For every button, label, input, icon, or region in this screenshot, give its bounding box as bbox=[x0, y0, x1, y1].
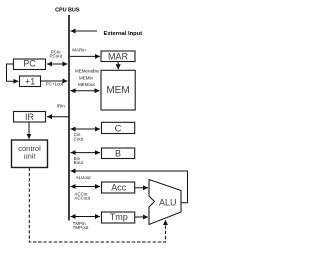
wire: control unit to ALU (dashed control path) bbox=[29, 168, 165, 242]
memory MEM bbox=[101, 70, 135, 110]
svg-text:MEMenable: MEMenable bbox=[75, 69, 100, 74]
wire: PC to bus (double arrow) bbox=[47, 63, 68, 65]
svg-text:MAR: MAR bbox=[108, 52, 129, 62]
svg-text:Cout: Cout bbox=[74, 136, 84, 141]
wire: ALU output feedback to bus (ALUout) bbox=[71, 171, 188, 203]
wire: B to bus (double arrow) bbox=[71, 152, 101, 154]
svg-text:unit: unit bbox=[23, 152, 36, 161]
svg-text:IRin: IRin bbox=[57, 104, 65, 109]
svg-text:PC+1out: PC+1out bbox=[46, 82, 64, 87]
wire: +1 to bus bbox=[41, 80, 68, 82]
svg-text:External Input: External Input bbox=[104, 31, 143, 37]
wire: External Input to bus bbox=[71, 30, 98, 32]
wire: Tmp to ALU bbox=[135, 216, 148, 218]
svg-text:PC: PC bbox=[23, 59, 36, 69]
svg-text:Acc: Acc bbox=[111, 183, 127, 193]
svg-text:MEMin: MEMin bbox=[79, 76, 93, 81]
wire: bus to IR bbox=[47, 116, 69, 118]
wire: MEM to bus (double arrow) bbox=[71, 90, 100, 92]
wire: IR to control unit bbox=[28, 122, 30, 139]
control unit bbox=[12, 140, 48, 168]
wire: C to bus (double arrow) bbox=[71, 128, 101, 130]
svg-text:+1: +1 bbox=[25, 77, 35, 87]
register IR bbox=[14, 112, 46, 123]
svg-text:MEM: MEM bbox=[106, 85, 129, 96]
svg-text:MEMout: MEMout bbox=[78, 82, 96, 87]
wire: Acc to bus (double arrow) bbox=[71, 186, 101, 188]
wire: Tmp to bus (double arrow) bbox=[71, 216, 101, 218]
svg-text:B: B bbox=[115, 149, 121, 159]
svg-text:Tmp: Tmp bbox=[110, 212, 128, 222]
svg-text:TMPout: TMPout bbox=[73, 225, 90, 230]
svg-text:C: C bbox=[115, 123, 122, 134]
register MAR bbox=[101, 51, 135, 62]
svg-text:IR: IR bbox=[25, 112, 35, 122]
svg-text:PCout: PCout bbox=[49, 54, 62, 59]
incrementer +1 bbox=[20, 76, 41, 87]
register C bbox=[102, 122, 135, 134]
register PC bbox=[14, 59, 46, 70]
svg-text:Bout: Bout bbox=[74, 160, 84, 165]
svg-text:MARin: MARin bbox=[72, 48, 86, 53]
wire: PC to +1 (elbow) bbox=[7, 64, 19, 81]
wire: bus to MAR bbox=[70, 55, 100, 57]
svg-text:ALUout: ALUout bbox=[76, 175, 92, 180]
wire: Acc to ALU bbox=[135, 187, 148, 189]
svg-text:ALU: ALU bbox=[159, 198, 177, 208]
CPU bus (vertical bus line) bbox=[68, 15, 70, 221]
svg-text:CPU BUS: CPU BUS bbox=[55, 7, 80, 13]
wire: MAR to MEM bbox=[117, 62, 119, 70]
svg-text:ACCout: ACCout bbox=[74, 195, 91, 200]
register Acc bbox=[102, 182, 135, 193]
register B bbox=[102, 148, 135, 159]
ALU bbox=[149, 180, 181, 225]
register Tmp bbox=[102, 212, 135, 223]
